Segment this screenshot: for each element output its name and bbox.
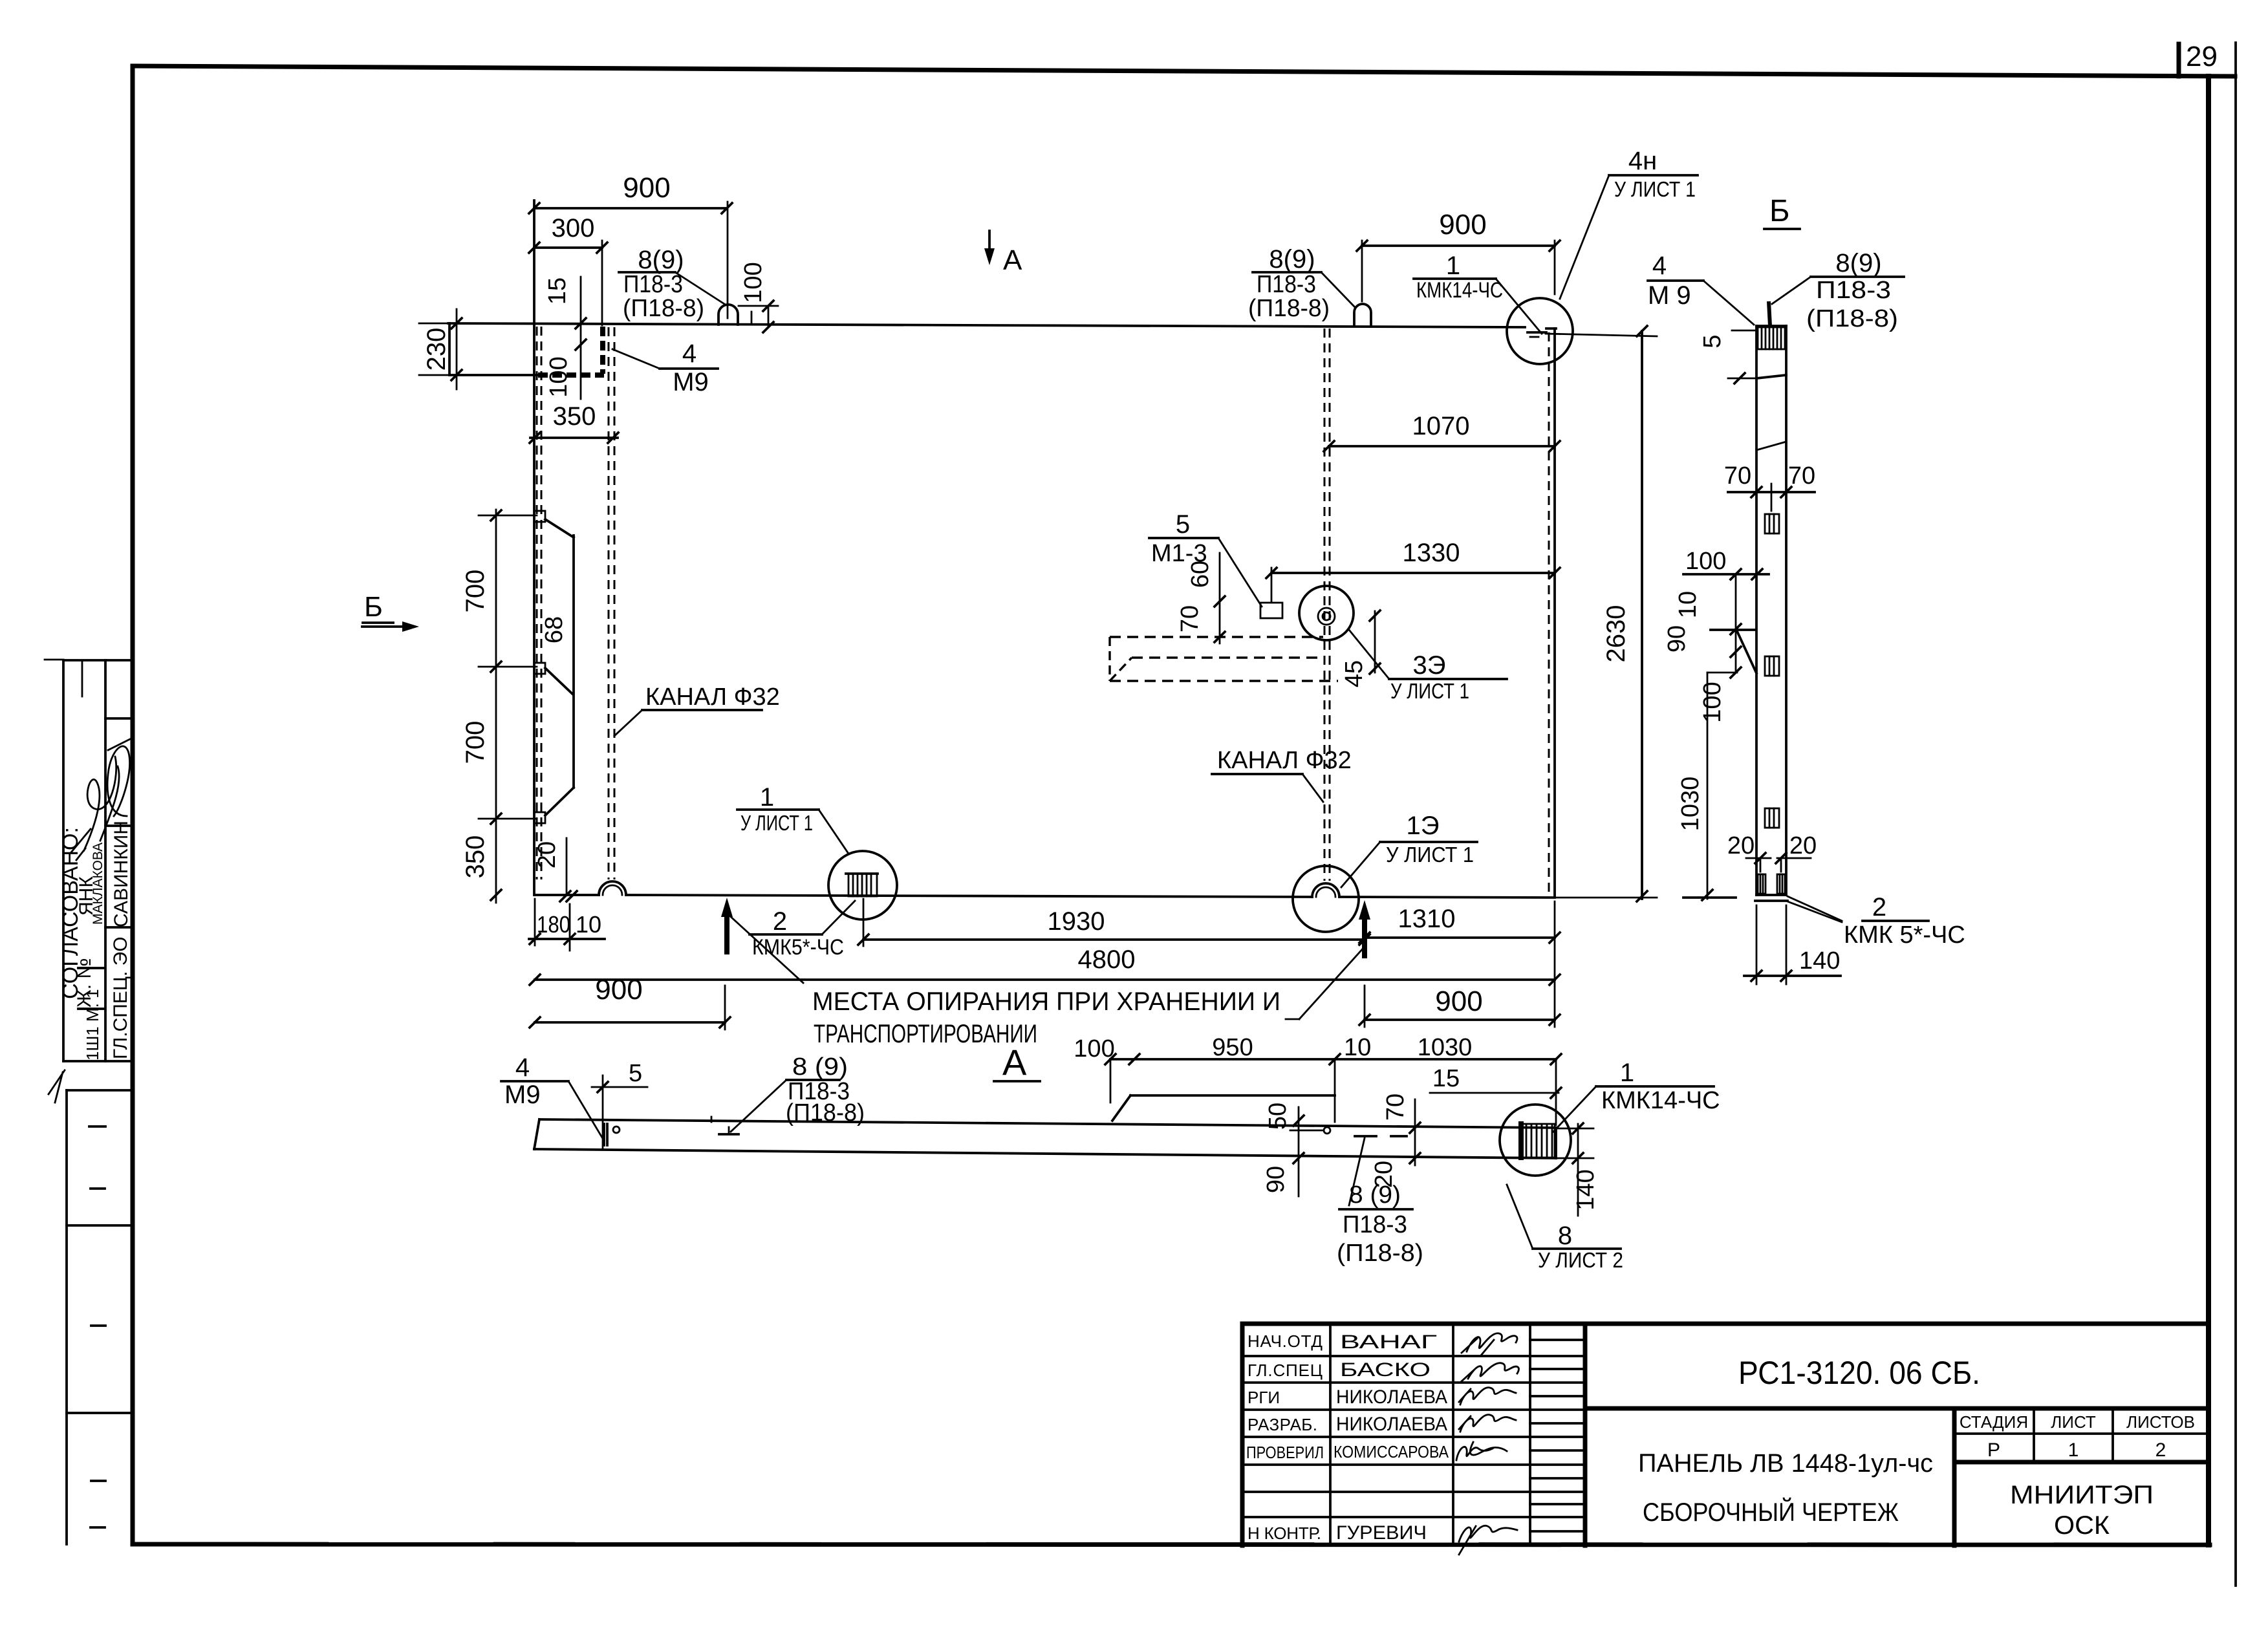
title block signature table grid [1242,1324,1585,1546]
title block signatures [1456,1333,1518,1555]
label 3e U list 1 [1349,630,1507,703]
svg-text:1: 1 [1446,252,1460,280]
svg-text:8 (9): 8 (9) [792,1053,848,1081]
label 8 U list 2 [1507,1185,1623,1272]
svg-text:70: 70 [1724,462,1751,490]
dimension 300 [529,214,607,325]
svg-text:350: 350 [461,835,490,879]
svg-text:У ЛИСТ 1: У ЛИСТ 1 [1390,679,1469,703]
svg-text:4800: 4800 [1078,945,1136,974]
section mark A top with arrow [984,231,1022,276]
svg-text:900: 900 [1435,986,1482,1017]
svg-text:ГЛ.СПЕЦ: ГЛ.СПЕЦ [1247,1361,1323,1380]
canal f32 dashed pair second [609,327,614,879]
svg-text:Б: Б [364,591,383,623]
dimension 1930 [858,899,1370,946]
dimension 1070 [1324,412,1560,451]
svg-text:230: 230 [422,328,451,371]
svg-text:У ЛИСТ 1: У ЛИСТ 1 [1614,177,1696,201]
TITLE BLOCK [1242,1324,2209,1546]
bottom anchors in B [1758,874,1785,894]
label Kanal f32 center [1212,747,1352,802]
svg-text:900: 900 [595,974,642,1006]
svg-text:СБОРОЧНЫЙ ЧЕРТЕЖ: СБОРОЧНЫЙ ЧЕРТЕЖ [1643,1497,1899,1527]
bolt square 3 in B [1765,808,1779,828]
dimension 230 [419,309,470,389]
panel left edge [533,200,535,895]
svg-text:350: 350 [553,402,596,431]
crack line in B [1756,442,1786,450]
dimension 60 70 chain at M1-3 [1176,553,1225,643]
svg-text:КМК14-ЧС: КМК14-ЧС [1601,1087,1720,1114]
P18-3 tube marks on A right [1355,1135,1407,1137]
svg-text:(П18-8): (П18-8) [623,295,704,322]
svg-text:М9: М9 [504,1081,541,1109]
svg-text:3Э: 3Э [1413,651,1446,680]
svg-text:180: 180 [537,911,570,938]
svg-text:1310: 1310 [1398,905,1456,933]
canal f32 dashed pair left [537,327,541,879]
dimension 1330 [1266,539,1560,601]
svg-text:(П18-8): (П18-8) [1337,1240,1423,1267]
svg-text:1: 1 [760,783,774,812]
dimension 900 bottom-left [530,974,730,1029]
svg-text:КМК5*-ЧС: КМК5*-ЧС [752,935,844,960]
svg-text:8(9): 8(9) [1835,249,1881,277]
dimension 1310 [1359,905,1560,943]
dims 100 950 10 1030 15 on A [1074,1034,1561,1125]
svg-text:70: 70 [1788,462,1815,490]
left margin approval stamp box [45,660,133,1061]
svg-text:М1-3: М1-3 [1151,540,1207,567]
svg-text:П18-3: П18-3 [1343,1211,1407,1238]
M9 anchor heavy dashed corner [538,327,604,375]
svg-text:Б: Б [1769,194,1790,228]
bolt square 1 in B [1765,514,1779,533]
dimension 4800 [530,945,1560,985]
left margin lower box [67,1090,133,1544]
svg-text:300: 300 [552,214,595,242]
svg-text:А: А [1003,244,1022,276]
svg-text:20: 20 [534,841,561,868]
dim 140 bottom B [1744,905,1841,984]
KMK14 anchor on A right end [1521,1124,1555,1158]
svg-text:4н: 4н [1628,147,1657,175]
panel top edge [448,323,1525,327]
label 1 KMK14-4C for A [1553,1059,1720,1132]
lifting loop 1 on top edge [718,305,738,325]
svg-text:5: 5 [1699,334,1726,348]
svg-text:БАСКО: БАСКО [1340,1359,1431,1381]
svg-text:У ЛИСТ 1: У ЛИСТ 1 [1386,843,1474,867]
bolt in 3e circle [1318,608,1335,625]
lifting loop 2 on top edge [1354,304,1371,326]
svg-text:П18-3: П18-3 [1816,277,1891,304]
label 2 KMK5-4C for B [1787,893,1965,949]
M1-3 embed rectangle [1260,603,1282,618]
label 8(9) P18-3 (P18-8) top-left [619,246,724,322]
svg-text:10: 10 [576,911,601,938]
svg-text:(П18-8): (П18-8) [786,1099,865,1126]
loop wire top of B [1769,301,1770,326]
dim 20 20 bottom B [1727,832,1817,872]
svg-text:РАЗРАБ.: РАЗРАБ. [1247,1415,1317,1434]
svg-text:50: 50 [1264,1103,1291,1130]
svg-text:90: 90 [1663,625,1690,652]
panel right edge [1553,329,1556,897]
protrusion wedge on B [1711,630,1756,673]
label 1e U list 1 [1341,812,1477,887]
supports note text [729,915,1365,1048]
svg-text:КАНАЛ Ф32: КАНАЛ Ф32 [645,684,780,711]
dimension 100 at loop 1 [739,262,778,332]
title block panel name [1638,1449,1933,1527]
svg-text:А: А [1002,1042,1027,1083]
svg-text:НАЧ.ОТД: НАЧ.ОТД [1247,1331,1323,1351]
svg-text:68: 68 [541,616,568,643]
section mark Б left with arrow [362,591,419,632]
svg-text:1330: 1330 [1403,539,1460,567]
svg-text:ВАНАГ: ВАНАГ [1340,1331,1437,1353]
svg-text:1930: 1930 [1048,907,1105,936]
svg-text:Р: Р [1987,1439,2000,1461]
dim 50 90 chain on A [1262,1103,1330,1196]
svg-text:2: 2 [773,907,787,936]
dimension 900 top-right [1357,209,1560,301]
svg-text:(П18-8): (П18-8) [1806,305,1898,332]
svg-text:15: 15 [1432,1065,1460,1092]
label 5 M1-3 [1149,510,1262,607]
top anchor hatched in B [1758,327,1785,349]
svg-text:900: 900 [1439,209,1486,241]
svg-text:20: 20 [1727,832,1755,859]
svg-text:8 (9): 8 (9) [1349,1181,1401,1209]
label 8(9) P18-3 (P18-8) on A right [1337,1138,1423,1267]
support arrow 1 [721,898,733,952]
label 4 M9 for B [1648,252,1754,325]
detail circle top-right 4n [1507,298,1573,364]
label 1 KMK14-4C top-right [1414,252,1542,334]
svg-text:МАКЛАКОВА: МАКЛАКОВА [91,843,105,925]
stamp signatures [71,738,131,860]
svg-text:140: 140 [1572,1169,1599,1210]
recess dashed rectangle [1110,637,1338,681]
detail circle KMK14 [1500,1104,1571,1176]
stamp rotated texts [58,821,132,1061]
svg-text:1030: 1030 [1418,1034,1473,1061]
svg-text:НИКОЛАЕВА: НИКОЛАЕВА [1336,1414,1447,1435]
svg-text:8(9): 8(9) [638,246,684,274]
strip B outline [1755,326,1787,901]
svg-text:КМК14-ЧС: КМК14-ЧС [1416,278,1503,303]
svg-text:МЕСТА ОПИРАНИЯ ПРИ ХРАНЕНИИ: МЕСТА ОПИРАНИЯ ПРИ ХРАНЕНИИ И [812,987,1280,1016]
dim 5 on A [592,1060,647,1148]
section A label [994,1042,1040,1083]
svg-text:1070: 1070 [1412,412,1470,440]
svg-text:950: 950 [1212,1034,1253,1061]
svg-text:1: 1 [1620,1059,1634,1087]
dim 140 on A [1556,1123,1599,1216]
svg-text:100: 100 [740,262,767,303]
svg-text:900: 900 [623,172,670,204]
svg-text:ГЛ.СПЕЦ. ЭО: ГЛ.СПЕЦ. ЭО [110,936,131,1059]
svg-text:100: 100 [1074,1035,1114,1062]
dimension 900 bottom-right [1359,901,1560,1027]
svg-text:8(9): 8(9) [1269,245,1315,274]
svg-text:8: 8 [1558,1222,1572,1250]
label 8(9) P18-3 (P18-8) top-center [1248,245,1354,322]
svg-text:2: 2 [1872,893,1886,921]
svg-text:ГУРЕВИЧ: ГУРЕВИЧ [1336,1522,1427,1544]
hidden dashed line along right edge [1548,332,1550,894]
anchor KMK5 hatched on bottom edge [846,874,878,896]
svg-text:70: 70 [1382,1094,1409,1121]
svg-text:П18-3: П18-3 [1257,271,1316,298]
dimension 350 top [530,402,618,443]
svg-text:140: 140 [1799,947,1840,975]
svg-text:2630: 2630 [1602,605,1630,663]
svg-text:10: 10 [1674,591,1701,618]
svg-text:Н КОНТР.: Н КОНТР. [1247,1524,1321,1543]
svg-text:1Ш1 М. 1: 1Ш1 М. 1 [83,989,102,1061]
detail circle 3e [1299,586,1354,640]
P18-3 tube mark on A left [711,1117,739,1134]
svg-text:100: 100 [1685,548,1726,575]
dimension 900 top-left [529,172,732,318]
dim 70 70 in B [1724,462,1815,511]
canal exit notch left (double arc) [599,881,626,895]
svg-text:1Э: 1Э [1407,812,1440,840]
svg-text:4: 4 [682,339,697,368]
svg-text:100: 100 [1699,682,1726,722]
step edge on A [1112,1061,1335,1122]
title block names [1334,1331,1449,1544]
B left dim chain 100 10 90 100 1030 [1663,548,1769,900]
label 8(9) P18-3 (P18-8) on A left [731,1053,865,1132]
detail circle around anchor 1 [828,851,897,920]
strip A outline [534,1119,1556,1158]
institute name [2010,1481,2154,1540]
label 4 M9 [612,339,718,396]
svg-text:У ЛИСТ 2: У ЛИСТ 2 [1538,1248,1623,1272]
dimension 45 [1341,610,1380,687]
stamp check mark [49,1070,65,1103]
svg-text:5: 5 [629,1060,642,1087]
svg-text:ОСК: ОСК [2054,1511,2110,1540]
svg-text:П18-3: П18-3 [623,271,683,298]
svg-text:РС1-3120. 06 СБ.: РС1-3120. 06 СБ. [1738,1355,1980,1391]
dimension 2630 [1546,326,1657,901]
svg-text:ПАНЕЛЬ ЛВ 1448-1ул-чс: ПАНЕЛЬ ЛВ 1448-1ул-чс [1638,1449,1933,1478]
dim 5 in B [1699,330,1786,383]
label 4 M9 for A [501,1053,604,1141]
canal f32 dashed pair third (center) [1324,329,1330,881]
svg-text:1030: 1030 [1677,777,1704,832]
canal exit notch right in circle (double arc) [1312,883,1339,897]
svg-text:70: 70 [1176,605,1204,632]
svg-text:4: 4 [515,1053,530,1082]
svg-text:САВИНКИН: САВИНКИН [111,821,132,927]
svg-text:КАНАЛ Ф32: КАНАЛ Ф32 [1217,747,1352,774]
svg-text:700: 700 [461,721,490,764]
top-right corner step detail [1528,329,1556,337]
svg-text:ПРОВЕРИЛ: ПРОВЕРИЛ [1246,1443,1324,1462]
groove slot with squares on left edge [534,511,574,823]
svg-text:У ЛИСТ 1: У ЛИСТ 1 [740,811,813,835]
label 4n U list 1 [1560,147,1698,299]
svg-text:5: 5 [1176,510,1190,539]
svg-text:НИКОЛАЕВА: НИКОЛАЕВА [1336,1386,1447,1408]
svg-text:100: 100 [545,356,572,397]
section B label [1764,194,1800,229]
svg-text:ЛИСТОВ: ЛИСТОВ [2126,1412,2195,1432]
svg-text:ЛИСТ: ЛИСТ [2051,1412,2096,1432]
page number box 29 [2179,41,2218,76]
detail circle bottom 1e [1293,866,1359,932]
svg-text:РГИ: РГИ [1247,1388,1280,1407]
svg-text:2: 2 [2155,1439,2166,1461]
stage table [1954,1408,2209,1462]
label Kanal f32 left [614,684,780,736]
left dim chain 700/700/350 [461,510,537,903]
svg-text:КМК 5*-ЧС: КМК 5*-ЧС [1844,921,1965,949]
svg-text:20: 20 [1789,832,1817,859]
label 1 U list 1 [737,783,848,854]
svg-text:СТАДИЯ: СТАДИЯ [1960,1412,2028,1432]
label 8(9) P18-3 (P18-8) for B [1772,249,1904,332]
svg-text:15: 15 [544,277,571,305]
support arrow 2 [1359,900,1370,956]
title block role labels [1246,1331,1324,1543]
M9 plate on A [604,1124,620,1145]
svg-text:90: 90 [1262,1166,1290,1193]
svg-text:КОМИССАРОВА: КОМИССАРОВА [1334,1442,1449,1461]
bolt square 2 in B [1765,656,1779,676]
svg-text:МНИИТЭП: МНИИТЭП [2010,1481,2154,1509]
panel top-left protrusion [449,323,538,375]
svg-text:29: 29 [2186,41,2218,72]
svg-text:45: 45 [1341,660,1368,687]
svg-text:10: 10 [1344,1034,1371,1061]
dimension 20 bottom-left [534,838,577,901]
svg-text:(П18-8): (П18-8) [1248,295,1330,322]
svg-text:М 9: М 9 [1648,281,1691,310]
panel bottom edge [535,895,1555,898]
svg-text:М9: М9 [673,368,709,396]
dimension 15 / 100 small chain [544,277,586,399]
label 2 KMK5-4C plan [750,901,855,960]
svg-text:1: 1 [2068,1439,2079,1461]
dimension 180 10 [529,899,605,951]
svg-text:4: 4 [1652,252,1667,280]
svg-text:700: 700 [461,570,490,613]
dim 70 20 chain on A [1370,1094,1420,1188]
